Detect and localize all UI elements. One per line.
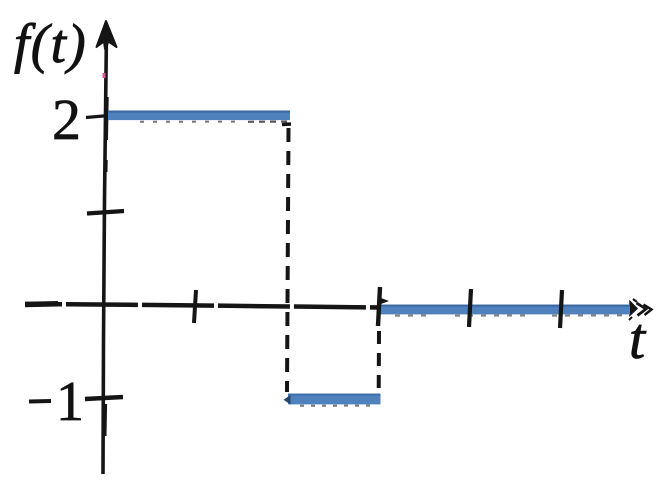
svg-text:1: 1 (56, 371, 84, 433)
svg-text:t: t (629, 306, 647, 371)
x-axis (25, 304, 381, 308)
tick t=5 (560, 290, 562, 328)
blue segment y=-1 (2 to 3) (284, 394, 381, 405)
pink speck on axis (103, 73, 106, 78)
tick y=-1 (85, 397, 123, 399)
ink under y=-1 segment (300, 405, 376, 407)
dashed rise line t=3 (377, 331, 381, 392)
dashed drop line t=2 (282, 122, 291, 126)
blue segment y=2 (0 to 2) (108, 111, 290, 121)
tick y=1 (87, 211, 124, 214)
y-axis (103, 30, 107, 474)
ink under y=0 segment (395, 315, 432, 317)
x-axis left thick start (25, 301, 58, 307)
blue segment y=0 (3 to inf) (380, 305, 630, 315)
label -1 minus (29, 399, 51, 404)
tick t=1 (194, 290, 196, 323)
tick y=2 (86, 116, 109, 118)
y-axis arrowhead (97, 21, 117, 49)
ink under y=2 segment (140, 121, 238, 123)
tick t=4 (469, 289, 471, 327)
tick t=3 hook (381, 298, 389, 304)
x-axis arrowhead (629, 299, 652, 320)
svg-text:2: 2 (52, 87, 81, 152)
tick t=3 (378, 287, 380, 326)
y-axis thick overdraw (105, 97, 109, 140)
svg-text:f(t): f(t) (14, 13, 87, 74)
